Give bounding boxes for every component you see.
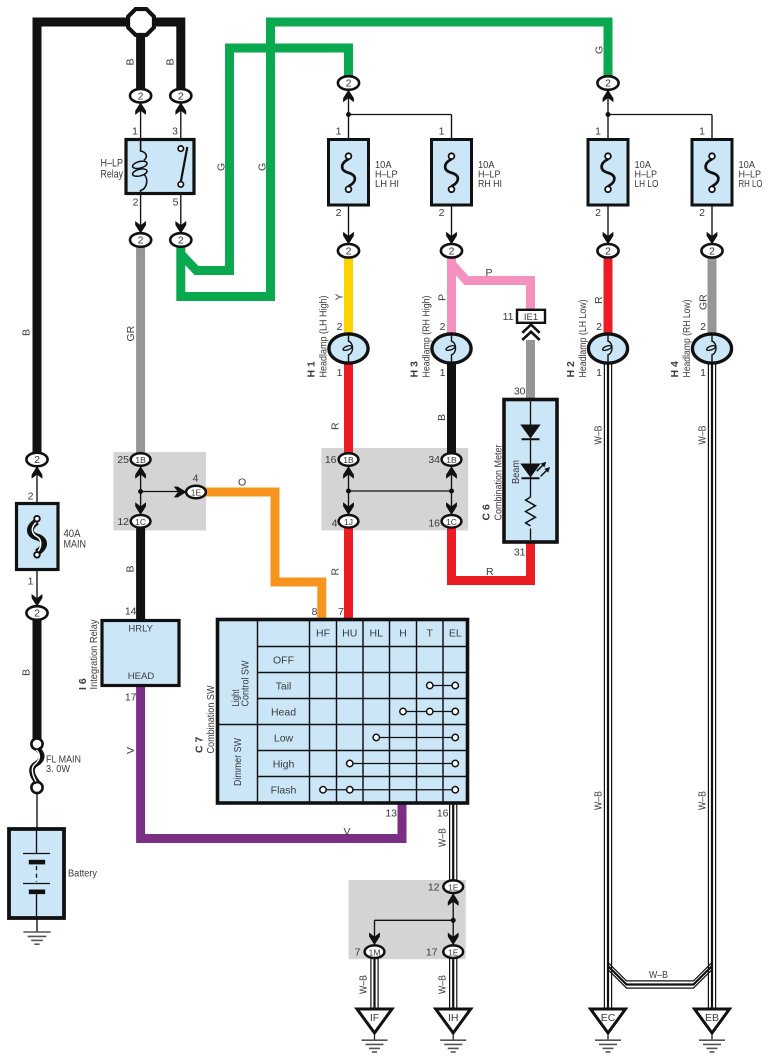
- svg-text:12: 12: [117, 516, 129, 528]
- svg-text:H: H: [399, 628, 407, 640]
- svg-text:V: V: [344, 826, 351, 838]
- svg-text:2: 2: [337, 321, 343, 333]
- svg-text:Tail: Tail: [276, 680, 292, 692]
- svg-text:Combination Meter: Combination Meter: [492, 444, 504, 520]
- svg-text:2: 2: [700, 321, 706, 333]
- svg-text:5: 5: [173, 197, 179, 209]
- svg-text:P: P: [437, 294, 449, 301]
- svg-text:1: 1: [596, 367, 602, 379]
- svg-text:Control SW: Control SW: [239, 660, 251, 706]
- svg-text:2: 2: [595, 207, 601, 219]
- svg-text:25: 25: [117, 454, 129, 466]
- svg-text:1: 1: [700, 367, 706, 379]
- svg-text:12: 12: [428, 882, 440, 894]
- svg-text:IE1: IE1: [524, 312, 538, 323]
- svg-text:Headlamp (RH High): Headlamp (RH High): [421, 296, 433, 378]
- svg-text:1J: 1J: [344, 517, 353, 527]
- svg-text:O: O: [238, 477, 246, 489]
- svg-text:Flash: Flash: [271, 785, 297, 797]
- svg-text:2: 2: [596, 321, 602, 333]
- svg-text:Head: Head: [271, 706, 296, 718]
- svg-text:B: B: [125, 565, 137, 572]
- svg-text:2: 2: [34, 454, 40, 466]
- svg-text:2: 2: [439, 207, 445, 219]
- svg-text:2: 2: [133, 197, 139, 209]
- svg-text:1: 1: [440, 367, 446, 379]
- svg-text:34: 34: [428, 454, 440, 466]
- svg-text:R: R: [593, 296, 605, 304]
- svg-text:1: 1: [699, 126, 705, 138]
- svg-text:W–B: W–B: [697, 426, 709, 445]
- svg-text:1E: 1E: [448, 947, 459, 957]
- svg-text:2: 2: [699, 207, 705, 219]
- svg-text:1B: 1B: [343, 455, 354, 465]
- svg-text:17: 17: [125, 692, 137, 704]
- svg-text:4: 4: [332, 518, 338, 530]
- svg-text:1C: 1C: [446, 517, 457, 527]
- svg-text:R: R: [330, 568, 342, 576]
- svg-text:EC: EC: [601, 1012, 616, 1024]
- svg-text:4: 4: [193, 473, 199, 485]
- svg-text:2: 2: [449, 245, 455, 257]
- svg-text:30: 30: [514, 386, 526, 398]
- svg-text:H 3: H 3: [409, 361, 421, 378]
- svg-text:G: G: [257, 163, 269, 171]
- svg-text:Relay: Relay: [101, 169, 124, 181]
- svg-text:14: 14: [125, 606, 137, 618]
- svg-text:G: G: [216, 163, 228, 171]
- svg-text:2: 2: [709, 245, 715, 257]
- svg-text:GR: GR: [125, 325, 137, 341]
- svg-text:17: 17: [426, 947, 438, 959]
- svg-text:B: B: [125, 58, 137, 65]
- svg-text:2: 2: [178, 235, 184, 247]
- svg-text:GR: GR: [698, 294, 710, 310]
- svg-text:2: 2: [138, 90, 144, 102]
- svg-text:EB: EB: [705, 1012, 719, 1024]
- svg-text:11: 11: [503, 311, 514, 323]
- svg-text:W–B: W–B: [437, 828, 449, 847]
- svg-text:HU: HU: [342, 628, 357, 640]
- svg-text:Y: Y: [334, 293, 346, 300]
- svg-text:16: 16: [437, 808, 449, 820]
- svg-text:W–B: W–B: [593, 791, 605, 810]
- svg-text:G: G: [594, 46, 606, 54]
- svg-text:IH: IH: [448, 1012, 459, 1024]
- svg-text:1B: 1B: [446, 455, 457, 465]
- svg-text:W–B: W–B: [649, 969, 668, 981]
- svg-text:H 1: H 1: [306, 361, 318, 378]
- svg-text:1: 1: [336, 126, 342, 138]
- svg-text:1: 1: [28, 576, 34, 588]
- svg-text:1: 1: [595, 126, 601, 138]
- svg-text:Headlamp (LH Low): Headlamp (LH Low): [577, 300, 589, 378]
- svg-text:MAIN: MAIN: [64, 539, 87, 551]
- svg-text:2: 2: [346, 245, 352, 257]
- svg-text:2: 2: [178, 90, 184, 102]
- svg-text:R: R: [486, 566, 494, 578]
- svg-text:B: B: [165, 58, 177, 65]
- svg-text:LH LO: LH LO: [635, 179, 659, 190]
- svg-text:1B: 1B: [135, 455, 146, 465]
- svg-text:B: B: [21, 329, 33, 336]
- svg-text:W–B: W–B: [697, 791, 709, 810]
- svg-text:P: P: [486, 267, 493, 279]
- svg-text:W–B: W–B: [358, 975, 370, 994]
- svg-text:2: 2: [605, 78, 611, 90]
- svg-text:1E: 1E: [448, 882, 459, 892]
- svg-text:8: 8: [312, 606, 318, 618]
- svg-text:B: B: [436, 414, 448, 421]
- svg-text:T: T: [427, 628, 434, 640]
- svg-text:Dimmer SW: Dimmer SW: [232, 738, 244, 786]
- svg-text:31: 31: [514, 547, 526, 559]
- svg-text:3. 0W: 3. 0W: [46, 764, 71, 775]
- svg-text:RH LO: RH LO: [739, 179, 763, 190]
- svg-text:1: 1: [132, 126, 138, 138]
- svg-text:B: B: [21, 669, 33, 676]
- svg-text:16: 16: [325, 454, 337, 466]
- svg-text:H 4: H 4: [669, 361, 681, 378]
- svg-text:1M: 1M: [369, 947, 381, 957]
- svg-text:C 6: C 6: [481, 504, 493, 521]
- svg-text:LH HI: LH HI: [375, 179, 399, 190]
- svg-text:2: 2: [346, 78, 352, 90]
- svg-text:Integration Relay: Integration Relay: [88, 619, 100, 690]
- svg-text:EL: EL: [449, 628, 462, 640]
- svg-text:Headlamp (RH Low): Headlamp (RH Low): [681, 300, 693, 378]
- svg-text:Low: Low: [274, 732, 294, 744]
- svg-text:IF: IF: [370, 1012, 379, 1024]
- svg-text:HL: HL: [370, 628, 384, 640]
- svg-text:7: 7: [355, 947, 361, 959]
- svg-text:1: 1: [439, 126, 445, 138]
- svg-text:7: 7: [338, 606, 344, 618]
- svg-text:2: 2: [605, 245, 611, 257]
- svg-text:HF: HF: [316, 628, 330, 640]
- svg-text:HEAD: HEAD: [128, 671, 155, 682]
- svg-text:16: 16: [428, 518, 440, 530]
- svg-text:2: 2: [336, 207, 342, 219]
- svg-text:Headlamp (LH High): Headlamp (LH High): [318, 296, 330, 378]
- svg-text:HRLY: HRLY: [128, 624, 153, 635]
- svg-text:RH HI: RH HI: [478, 179, 502, 190]
- svg-text:Battery: Battery: [68, 868, 98, 880]
- svg-text:R: R: [330, 422, 342, 430]
- svg-text:3: 3: [172, 126, 178, 138]
- svg-text:OFF: OFF: [273, 654, 294, 666]
- svg-text:Combination SW: Combination SW: [205, 685, 217, 753]
- svg-text:2: 2: [138, 235, 144, 247]
- svg-text:1C: 1C: [135, 517, 146, 527]
- svg-text:W–B: W–B: [437, 975, 449, 994]
- svg-text:2: 2: [440, 321, 446, 333]
- svg-text:H 2: H 2: [565, 361, 577, 378]
- svg-text:Beam: Beam: [510, 460, 522, 484]
- svg-text:2: 2: [34, 608, 40, 620]
- svg-text:V: V: [125, 747, 137, 754]
- svg-text:High: High: [273, 758, 295, 770]
- svg-text:1: 1: [337, 367, 343, 379]
- svg-text:13: 13: [385, 808, 397, 820]
- svg-text:1E: 1E: [191, 488, 202, 498]
- svg-text:W–B: W–B: [593, 426, 605, 445]
- svg-text:2: 2: [28, 491, 34, 503]
- svg-text:C 7: C 7: [194, 737, 206, 754]
